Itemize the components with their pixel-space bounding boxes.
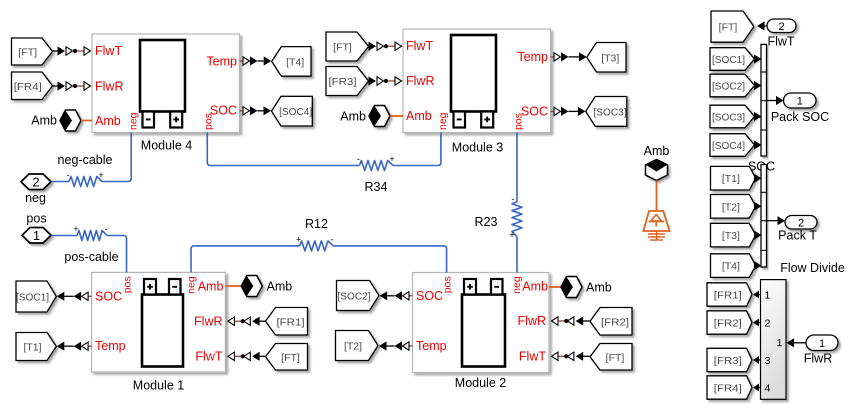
from tag [SOC3] (right column) bbox=[710, 105, 755, 128]
svg-text:neg: neg bbox=[186, 276, 198, 294]
wire R23 to Module 2 neg bbox=[516, 237, 518, 273]
svg-text:neg-cable: neg-cable bbox=[58, 153, 113, 167]
wire chain [FT] to FlwT Module 2 bbox=[552, 352, 591, 361]
svg-text:[SOC3]: [SOC3] bbox=[594, 106, 627, 118]
resistor pos-cable bbox=[73, 224, 107, 241]
svg-text:[T4]: [T4] bbox=[722, 261, 740, 273]
svg-text:3: 3 bbox=[765, 355, 771, 367]
svg-text:pos-cable: pos-cable bbox=[64, 250, 118, 264]
svg-text:R12: R12 bbox=[305, 217, 328, 231]
wire R12 to Module 2 pos bbox=[333, 246, 446, 273]
svg-text:Module 2: Module 2 bbox=[455, 376, 506, 390]
battery icon Module 3 bbox=[451, 35, 496, 128]
orange wire ambient to thermal reference bbox=[656, 181, 658, 211]
from tag [SOC2] (right column) bbox=[710, 74, 755, 97]
svg-text:+: + bbox=[73, 224, 78, 234]
wire chain [FT] to FlwT Module 1 bbox=[228, 352, 266, 361]
battery icon Module 4 bbox=[140, 40, 185, 128]
from tag [FR2] (to Module 2 FlwR) bbox=[590, 308, 632, 336]
from tag [FR3] (right column) bbox=[707, 348, 752, 371]
svg-text:SOC: SOC bbox=[95, 290, 122, 304]
goto tag [FT] (top right) bbox=[711, 11, 754, 42]
svg-text:FlwR: FlwR bbox=[95, 80, 123, 94]
wire [SOC4] to SOC averager bbox=[754, 140, 762, 149]
wire chain Temp Module 4 to [T4] bbox=[240, 56, 272, 65]
svg-text:pos: pos bbox=[26, 212, 46, 226]
svg-text:[T3]: [T3] bbox=[601, 52, 619, 64]
inport 1 FlwR bbox=[806, 335, 838, 351]
svg-text:FlwT: FlwT bbox=[95, 44, 122, 58]
orange wire Amb to Module 4 bbox=[81, 120, 92, 122]
ambient connector cube (Module 3) bbox=[369, 106, 390, 127]
wire port2 to neg-cable bbox=[51, 181, 69, 183]
from tag [T2] (right column) bbox=[711, 195, 756, 219]
wire chain [FR1] to FlwR Module 1 bbox=[228, 317, 266, 326]
from tag [T1] (right column) bbox=[711, 166, 756, 190]
flow divide block bbox=[761, 280, 787, 400]
svg-text:Amb: Amb bbox=[644, 144, 670, 158]
wire chain [FT] to FlwT Module 4 bbox=[53, 46, 91, 55]
svg-text:[FR3]: [FR3] bbox=[714, 355, 742, 367]
orange wire Module 2 to Amb connector bbox=[549, 286, 561, 288]
svg-text:4: 4 bbox=[765, 382, 771, 394]
wire port1 to pos-cable bbox=[51, 235, 77, 237]
from tag [FR1] (to Module 1 FlwR) bbox=[266, 308, 308, 336]
from tag [FR2] (right column) bbox=[707, 311, 752, 334]
svg-text:[SOC2]: [SOC2] bbox=[712, 81, 745, 93]
wire Module 4 pos to R34 bbox=[207, 133, 359, 166]
svg-text:[FR4]: [FR4] bbox=[14, 81, 42, 93]
svg-text:pos: pos bbox=[122, 276, 134, 293]
svg-text:1: 1 bbox=[797, 96, 803, 108]
resistor R12 bbox=[296, 234, 334, 251]
wire [T1] to T averager bbox=[754, 174, 762, 183]
svg-text:[FR2]: [FR2] bbox=[714, 318, 742, 330]
connection port 1 (pos) bbox=[22, 228, 51, 244]
svg-text:+: + bbox=[509, 230, 514, 240]
SOC averaging bar bbox=[761, 44, 767, 156]
svg-text:R23: R23 bbox=[475, 215, 498, 229]
svg-text:[SOC2]: [SOC2] bbox=[338, 291, 371, 303]
wire neg-cable to Module 4 neg bbox=[102, 133, 131, 182]
inport 2 FlwT bbox=[767, 19, 796, 33]
svg-text:SOC: SOC bbox=[416, 289, 443, 303]
goto tag [SOC1] bbox=[16, 281, 56, 312]
svg-text:pos: pos bbox=[441, 276, 453, 293]
thermal reference symbol bbox=[643, 211, 669, 240]
svg-text:[SOC4]: [SOC4] bbox=[712, 140, 745, 152]
wire [SOC3] to SOC averager bbox=[754, 112, 762, 121]
svg-text:FlwT: FlwT bbox=[519, 350, 546, 364]
svg-text:[FR2]: [FR2] bbox=[601, 316, 629, 328]
wire flow divide to [FR1] bbox=[753, 291, 761, 299]
wire [SOC1] to SOC averager bbox=[754, 54, 762, 63]
svg-text:FlwR: FlwR bbox=[804, 352, 832, 366]
from tag [FT] (to Module 2 FlwT) bbox=[590, 344, 632, 371]
wire flow divide to [FR3] bbox=[753, 356, 761, 364]
svg-text:-: - bbox=[105, 224, 108, 234]
svg-text:neg: neg bbox=[128, 112, 140, 130]
wire T averager to outport 2 bbox=[767, 216, 786, 225]
wire Module 3 pos to R23 bbox=[516, 133, 518, 202]
svg-text:FlwT: FlwT bbox=[767, 34, 794, 48]
wire chain [FR4] to FlwR Module 4 bbox=[53, 81, 91, 90]
goto tag [T2] bbox=[336, 331, 379, 361]
svg-text:R34: R34 bbox=[365, 180, 388, 194]
wire Module 1 neg to R12 bbox=[191, 246, 300, 273]
resistor neg-cable bbox=[67, 170, 104, 187]
svg-text:FlwR: FlwR bbox=[518, 314, 546, 328]
svg-text:Amb: Amb bbox=[406, 109, 432, 123]
svg-text:-: - bbox=[357, 154, 360, 164]
wire [T3] to T averager bbox=[754, 231, 762, 240]
svg-text:FlwR: FlwR bbox=[406, 74, 434, 88]
subsystem block Module 2 bbox=[413, 273, 550, 373]
svg-text:Temp: Temp bbox=[206, 54, 237, 68]
T averaging bar bbox=[761, 165, 767, 268]
wire [SOC2] to SOC averager bbox=[754, 81, 762, 90]
goto tag [T1] bbox=[16, 333, 56, 361]
outport 1 Pack SOC bbox=[784, 93, 817, 108]
wire inport FlwR to flow divide bbox=[787, 338, 807, 347]
from tag [FR4] (to Module 4 FlwR) bbox=[12, 72, 53, 100]
svg-text:[T1]: [T1] bbox=[23, 342, 41, 354]
battery icon Module 2 bbox=[462, 279, 505, 367]
wire chain SOC Module 3 to [SOC3] bbox=[551, 107, 586, 116]
svg-text:Module 1: Module 1 bbox=[133, 379, 184, 393]
connection port 2 (neg) bbox=[21, 174, 51, 190]
wire chain [FR3] to FlwR Module 3 bbox=[369, 76, 402, 85]
goto tag [T4] bbox=[272, 47, 311, 77]
from tag [FT] (to Module 4 FlwT) bbox=[12, 38, 53, 65]
svg-text:-: - bbox=[67, 170, 70, 180]
ambient connector cube (Module 2) bbox=[561, 277, 582, 298]
svg-text:[T2]: [T2] bbox=[344, 341, 362, 353]
svg-text:Module 3: Module 3 bbox=[452, 141, 503, 155]
svg-text:-: - bbox=[512, 194, 515, 204]
svg-text:neg: neg bbox=[437, 112, 449, 130]
goto tag [SOC2] bbox=[337, 281, 380, 311]
wire chain [FR2] to FlwR Module 2 bbox=[552, 316, 591, 325]
svg-text:Temp: Temp bbox=[95, 339, 126, 353]
ambient source cube bbox=[646, 160, 668, 181]
svg-text:FlwT: FlwT bbox=[406, 39, 433, 53]
battery icon Module 1 bbox=[142, 279, 183, 367]
wire [T2] to T averager bbox=[754, 202, 762, 211]
subsystem block Module 4 bbox=[92, 34, 240, 133]
from tag [SOC1] (right column) bbox=[710, 48, 755, 71]
wire flow divide to [FR4] bbox=[753, 384, 761, 392]
svg-text:[T2]: [T2] bbox=[722, 201, 740, 213]
svg-text:[SOC4]: [SOC4] bbox=[279, 106, 312, 118]
svg-text:[SOC1]: [SOC1] bbox=[16, 292, 49, 304]
svg-text:+: + bbox=[389, 154, 394, 164]
svg-text:FlwT: FlwT bbox=[195, 350, 222, 364]
from tag [FR4] (right column) bbox=[707, 376, 752, 399]
wire inport FlwT to [FT] bbox=[757, 21, 767, 30]
svg-text:Amb: Amb bbox=[31, 114, 57, 128]
svg-text:Amb: Amb bbox=[522, 279, 548, 293]
goto tag [SOC3] bbox=[586, 97, 627, 127]
svg-text:-: - bbox=[331, 234, 334, 244]
svg-text:[SOC1]: [SOC1] bbox=[712, 54, 745, 66]
orange wire Amb to Module 3 bbox=[390, 115, 403, 117]
svg-text:2: 2 bbox=[32, 174, 39, 189]
svg-text:neg: neg bbox=[511, 276, 523, 294]
from tag [FR3] (to Module 3 FlwR) bbox=[326, 67, 369, 96]
svg-text:[FT]: [FT] bbox=[18, 47, 37, 59]
outport 2 Pack T bbox=[785, 216, 817, 230]
from tag [T3] (right column) bbox=[711, 223, 756, 247]
svg-text:Amb: Amb bbox=[586, 281, 612, 295]
subsystem block Module 1 bbox=[92, 272, 226, 372]
svg-text:1: 1 bbox=[777, 337, 783, 349]
svg-text:1: 1 bbox=[765, 289, 771, 301]
wire SOC averager to outport 1 bbox=[767, 96, 784, 105]
svg-text:[FR4]: [FR4] bbox=[714, 383, 742, 395]
svg-text:[T1]: [T1] bbox=[722, 173, 740, 185]
from tag [T4] (right column) bbox=[711, 254, 756, 278]
svg-text:Module 4: Module 4 bbox=[141, 139, 192, 153]
svg-text:Pack SOC: Pack SOC bbox=[771, 110, 829, 124]
svg-text:Amb: Amb bbox=[340, 110, 366, 124]
svg-text:2: 2 bbox=[765, 317, 771, 329]
svg-text:Amb: Amb bbox=[198, 279, 224, 293]
wire chain Temp Module 1 to [T1] bbox=[57, 342, 92, 351]
svg-text:[FR1]: [FR1] bbox=[277, 316, 305, 328]
svg-text:[T3]: [T3] bbox=[722, 230, 740, 242]
subsystem block Module 3 bbox=[403, 29, 551, 133]
wire chain SOC Module 4 to [SOC4] bbox=[240, 106, 272, 115]
wire pos-cable to Module 1 pos bbox=[107, 236, 127, 273]
resistor R23 bbox=[509, 194, 522, 240]
from tag [FR1] (right column) bbox=[707, 283, 752, 306]
svg-text:neg: neg bbox=[25, 191, 46, 205]
svg-text:[FT]: [FT] bbox=[719, 22, 738, 34]
svg-text:1: 1 bbox=[819, 338, 825, 350]
ambient connector cube (Module 1) bbox=[241, 276, 262, 297]
from tag [FT] (to Module 3 FlwT) bbox=[326, 32, 369, 61]
ambient connector cube (Module 4) bbox=[60, 110, 81, 131]
svg-text:pos: pos bbox=[203, 113, 215, 130]
svg-text:Amb: Amb bbox=[267, 280, 293, 294]
svg-text:2: 2 bbox=[778, 21, 784, 33]
wire flow divide to [FR2] bbox=[753, 319, 761, 327]
wire [T4] to T averager bbox=[754, 261, 762, 270]
wire R34 to Module 3 neg bbox=[393, 133, 441, 166]
svg-text:Temp: Temp bbox=[517, 50, 548, 64]
goto tag [SOC4] bbox=[272, 96, 313, 126]
svg-text:2: 2 bbox=[798, 217, 804, 229]
svg-text:[FT]: [FT] bbox=[333, 42, 352, 54]
wire chain SOC Module 2 to [SOC2] bbox=[380, 291, 413, 300]
svg-text:[SOC3]: [SOC3] bbox=[712, 112, 745, 124]
svg-text:+: + bbox=[98, 170, 103, 180]
from tag [FT] (to Module 1 FlwT) bbox=[266, 344, 308, 371]
wire chain Temp Module 2 to [T2] bbox=[379, 341, 413, 350]
resistor R34 bbox=[357, 154, 395, 171]
svg-text:Amb: Amb bbox=[95, 114, 121, 128]
svg-text:[FT]: [FT] bbox=[281, 352, 300, 364]
wire chain Temp Module 3 to [T3] bbox=[551, 52, 587, 61]
svg-text:Temp: Temp bbox=[416, 339, 447, 353]
svg-text:[T4]: [T4] bbox=[286, 56, 304, 68]
svg-text:SOC: SOC bbox=[521, 104, 548, 118]
svg-text:pos: pos bbox=[513, 113, 525, 130]
svg-text:Flow Divide: Flow Divide bbox=[780, 261, 845, 275]
goto tag [T3] bbox=[587, 43, 626, 73]
svg-text:Pack T: Pack T bbox=[778, 229, 817, 243]
from tag [SOC4] (right column) bbox=[710, 134, 755, 157]
wire chain [FT] to FlwT Module 3 bbox=[369, 42, 402, 51]
svg-text:1: 1 bbox=[33, 228, 40, 243]
svg-text:[FT]: [FT] bbox=[606, 352, 625, 364]
orange wire Module 1 to Amb connector bbox=[225, 285, 241, 287]
svg-text:[FR1]: [FR1] bbox=[714, 290, 742, 302]
svg-text:[FR3]: [FR3] bbox=[329, 76, 357, 88]
svg-text:+: + bbox=[296, 234, 301, 244]
wire chain SOC Module 1 to [SOC1] bbox=[57, 292, 92, 301]
svg-text:FlwR: FlwR bbox=[194, 314, 222, 328]
